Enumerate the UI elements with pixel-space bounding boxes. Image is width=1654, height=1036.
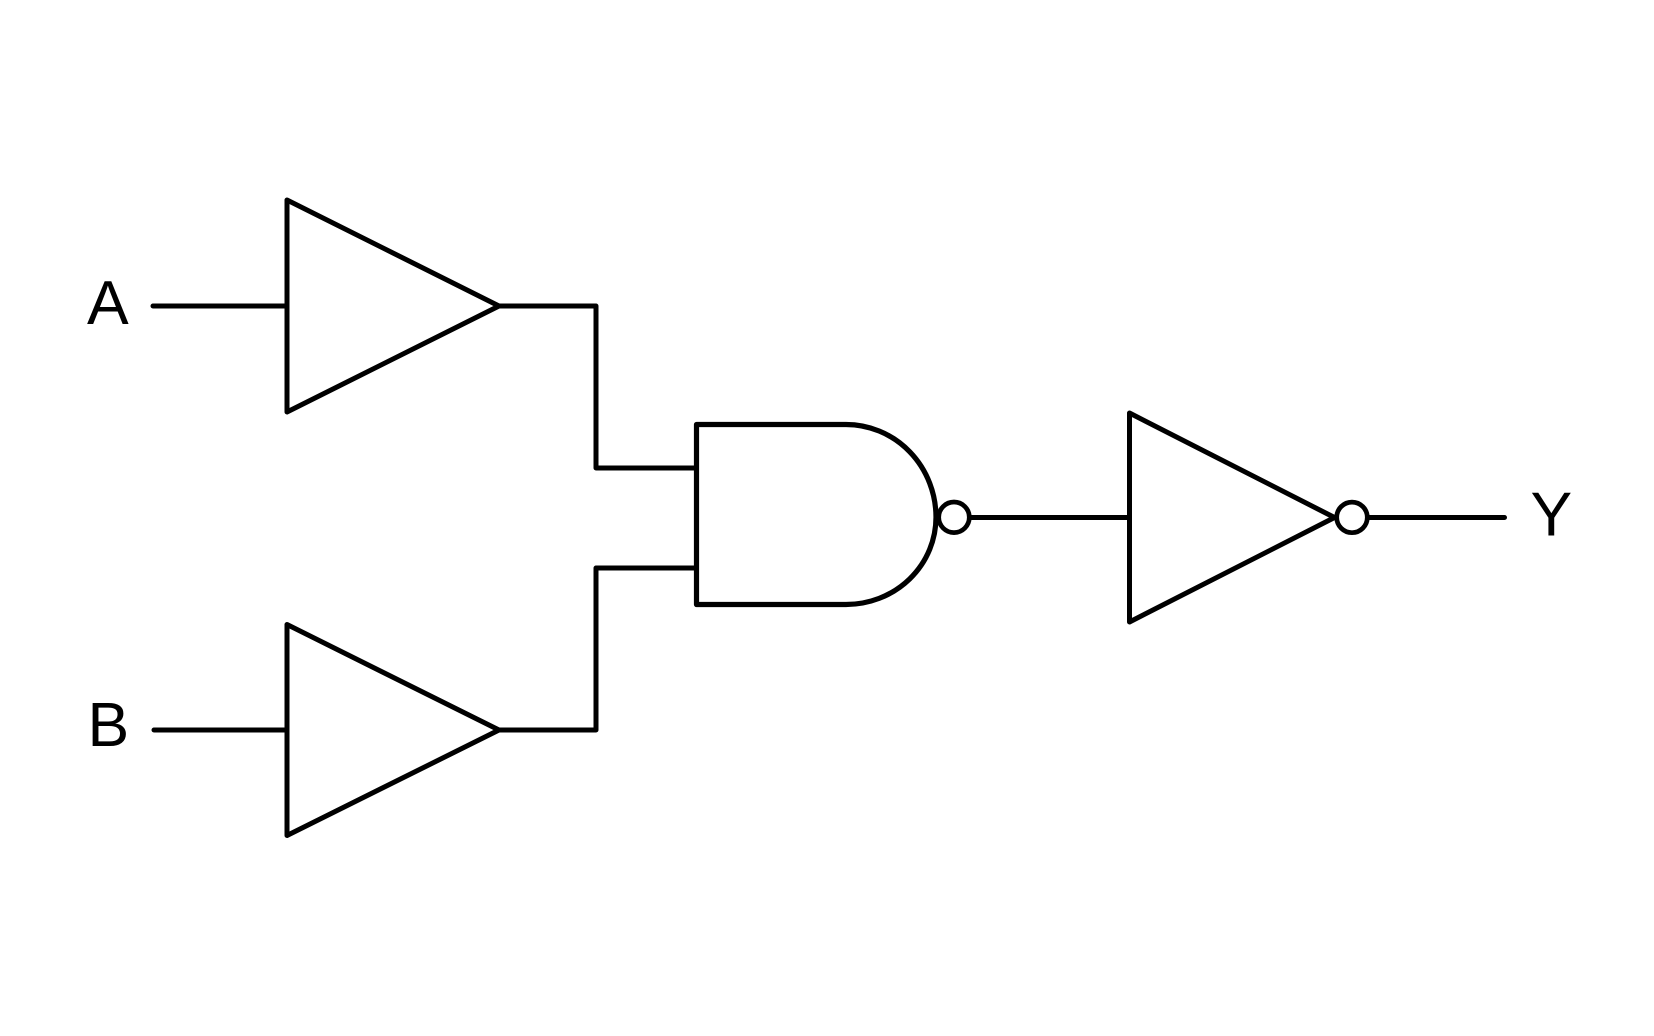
inverter U4 triangle: [1130, 413, 1335, 622]
NAND gate U3 body: [697, 425, 937, 605]
wire A input: [153, 304, 287, 309]
wire NAND output to inverter input: [970, 515, 1129, 520]
wire B input: [154, 728, 287, 733]
NAND gate U3 output bubble: [939, 502, 970, 533]
svg-text:B: B: [88, 690, 130, 760]
inverter U4 output bubble: [1337, 502, 1368, 533]
buffer U2 (input B): [287, 625, 499, 836]
buffer U1 (input A): [287, 200, 499, 412]
wire U1 output to NAND top input: [499, 306, 696, 468]
svg-text:A: A: [87, 268, 129, 338]
svg-text:Y: Y: [1531, 480, 1573, 550]
wire U2 output to NAND bottom input: [499, 568, 696, 730]
wire inverter output to Y: [1370, 515, 1505, 520]
